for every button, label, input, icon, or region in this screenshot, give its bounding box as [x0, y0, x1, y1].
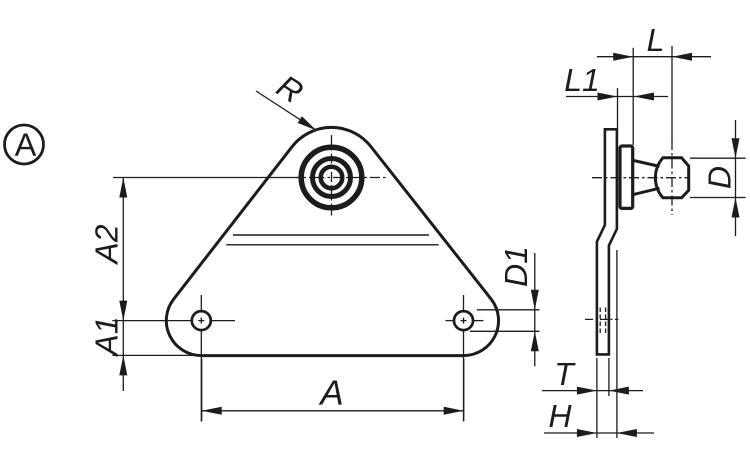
- L1 extension (plate right edge): [617, 88, 619, 129]
- label D: [708, 167, 730, 188]
- side hidden hole line right: [605, 308, 607, 334]
- bend line lower: [226, 244, 438, 246]
- A dimension line: [202, 410, 464, 412]
- L1 dimension line: [566, 96, 668, 98]
- T arrow right-pointing: [577, 387, 597, 395]
- side flange boss: [620, 146, 633, 208]
- A2 bottom extension line (through hole centerline): [112, 320, 168, 322]
- H arrow right-pointing: [577, 429, 597, 437]
- A extension right: [463, 359, 465, 422]
- R leader arrow: [298, 116, 317, 130]
- hole left: [192, 311, 211, 330]
- A arrow left: [202, 407, 222, 415]
- D arrow up: [732, 198, 740, 218]
- side stud neck top edge: [634, 161, 660, 167]
- D1 extension top: [477, 309, 540, 311]
- L extension (flange right): [632, 48, 634, 145]
- ball socket outer ring: [301, 147, 362, 208]
- D1 arrow up: [531, 331, 539, 351]
- side hole centerline: [585, 318, 618, 320]
- A2 arrow up: [119, 178, 127, 198]
- T arrow left-pointing: [609, 387, 629, 395]
- D extension top: [690, 157, 746, 159]
- label L: [648, 29, 663, 51]
- label R: [275, 74, 305, 104]
- label L1: [565, 69, 597, 91]
- T extension left: [596, 358, 598, 438]
- side stud neck bottom edge: [634, 188, 660, 194]
- T extension right: [608, 358, 610, 396]
- L dimension line: [597, 56, 711, 58]
- view label letter A: [15, 133, 37, 155]
- A2 top extension line: [113, 177, 303, 179]
- side horizontal centerline: [592, 177, 690, 179]
- socket horizontal centerline: [296, 177, 388, 179]
- A arrow right: [444, 407, 464, 415]
- socket vertical centerline: [331, 135, 333, 216]
- plate outline (front view): [166, 127, 498, 355]
- T dimension line: [542, 390, 643, 392]
- A2 A1 dimension line: [122, 178, 124, 392]
- label H: [549, 405, 571, 427]
- L arrow left-pointing: [672, 53, 692, 61]
- A2 arrow down: [119, 301, 127, 321]
- hole right centerlines: [446, 295, 484, 422]
- H extension right (upper strip right edge): [616, 250, 618, 438]
- side plate strip profile: [597, 129, 617, 354]
- label A1: [95, 319, 117, 357]
- H dimension line: [544, 432, 654, 434]
- side ball vertical centerline: [671, 140, 673, 215]
- D1 extension bottom: [470, 330, 540, 332]
- L1 arrow left-pointing: [634, 93, 654, 101]
- D1 arrow down: [531, 290, 539, 310]
- label A2: [95, 225, 117, 265]
- hole left centerlines: [168, 295, 235, 422]
- side ball vertical extension (to L dim): [671, 46, 673, 141]
- A extension left: [201, 359, 203, 422]
- H arrow left-pointing: [617, 429, 637, 437]
- L1 arrow right-pointing: [598, 93, 618, 101]
- side hidden hole line left: [599, 308, 601, 334]
- view label circle A: [5, 125, 44, 164]
- ball socket inner ring: [321, 167, 343, 189]
- label T: [557, 363, 576, 385]
- side ball: [655, 158, 688, 198]
- A1 bottom extension line (plate bottom): [112, 354, 201, 356]
- R leader line: [256, 91, 314, 129]
- D extension bottom: [690, 197, 746, 199]
- L arrow right-pointing: [613, 53, 633, 61]
- A1 arrow up: [119, 355, 127, 375]
- D1 dimension line: [534, 253, 536, 366]
- label D1: [505, 249, 527, 286]
- label A: [319, 381, 342, 405]
- ball socket middle ring: [313, 159, 351, 197]
- hole right: [454, 311, 473, 330]
- D arrow down: [732, 138, 740, 158]
- bend line upper: [233, 234, 429, 236]
- D dimension line: [735, 120, 737, 236]
